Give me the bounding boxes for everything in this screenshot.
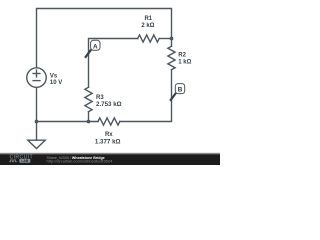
svg-text:R1: R1 [144, 16, 152, 22]
svg-text:R2: R2 [178, 53, 186, 59]
svg-text:1 kΩ: 1 kΩ [178, 59, 191, 65]
svg-text:2.753 kΩ: 2.753 kΩ [96, 101, 122, 108]
svg-text:1.377 kΩ: 1.377 kΩ [95, 138, 121, 145]
svg-text:B: B [178, 87, 183, 94]
svg-text:Vs: Vs [50, 74, 58, 80]
svg-text:10 V: 10 V [50, 80, 62, 86]
svg-text:R3: R3 [96, 95, 104, 101]
svg-text:http://circuitlab.com/c/shbsdb: http://circuitlab.com/c/shbsdbsdt3624 [47, 158, 114, 163]
svg-text:A: A [93, 43, 98, 50]
svg-text:Rx: Rx [105, 132, 113, 138]
svg-text:2 kΩ: 2 kΩ [141, 23, 154, 29]
svg-text:LAB: LAB [21, 159, 29, 163]
